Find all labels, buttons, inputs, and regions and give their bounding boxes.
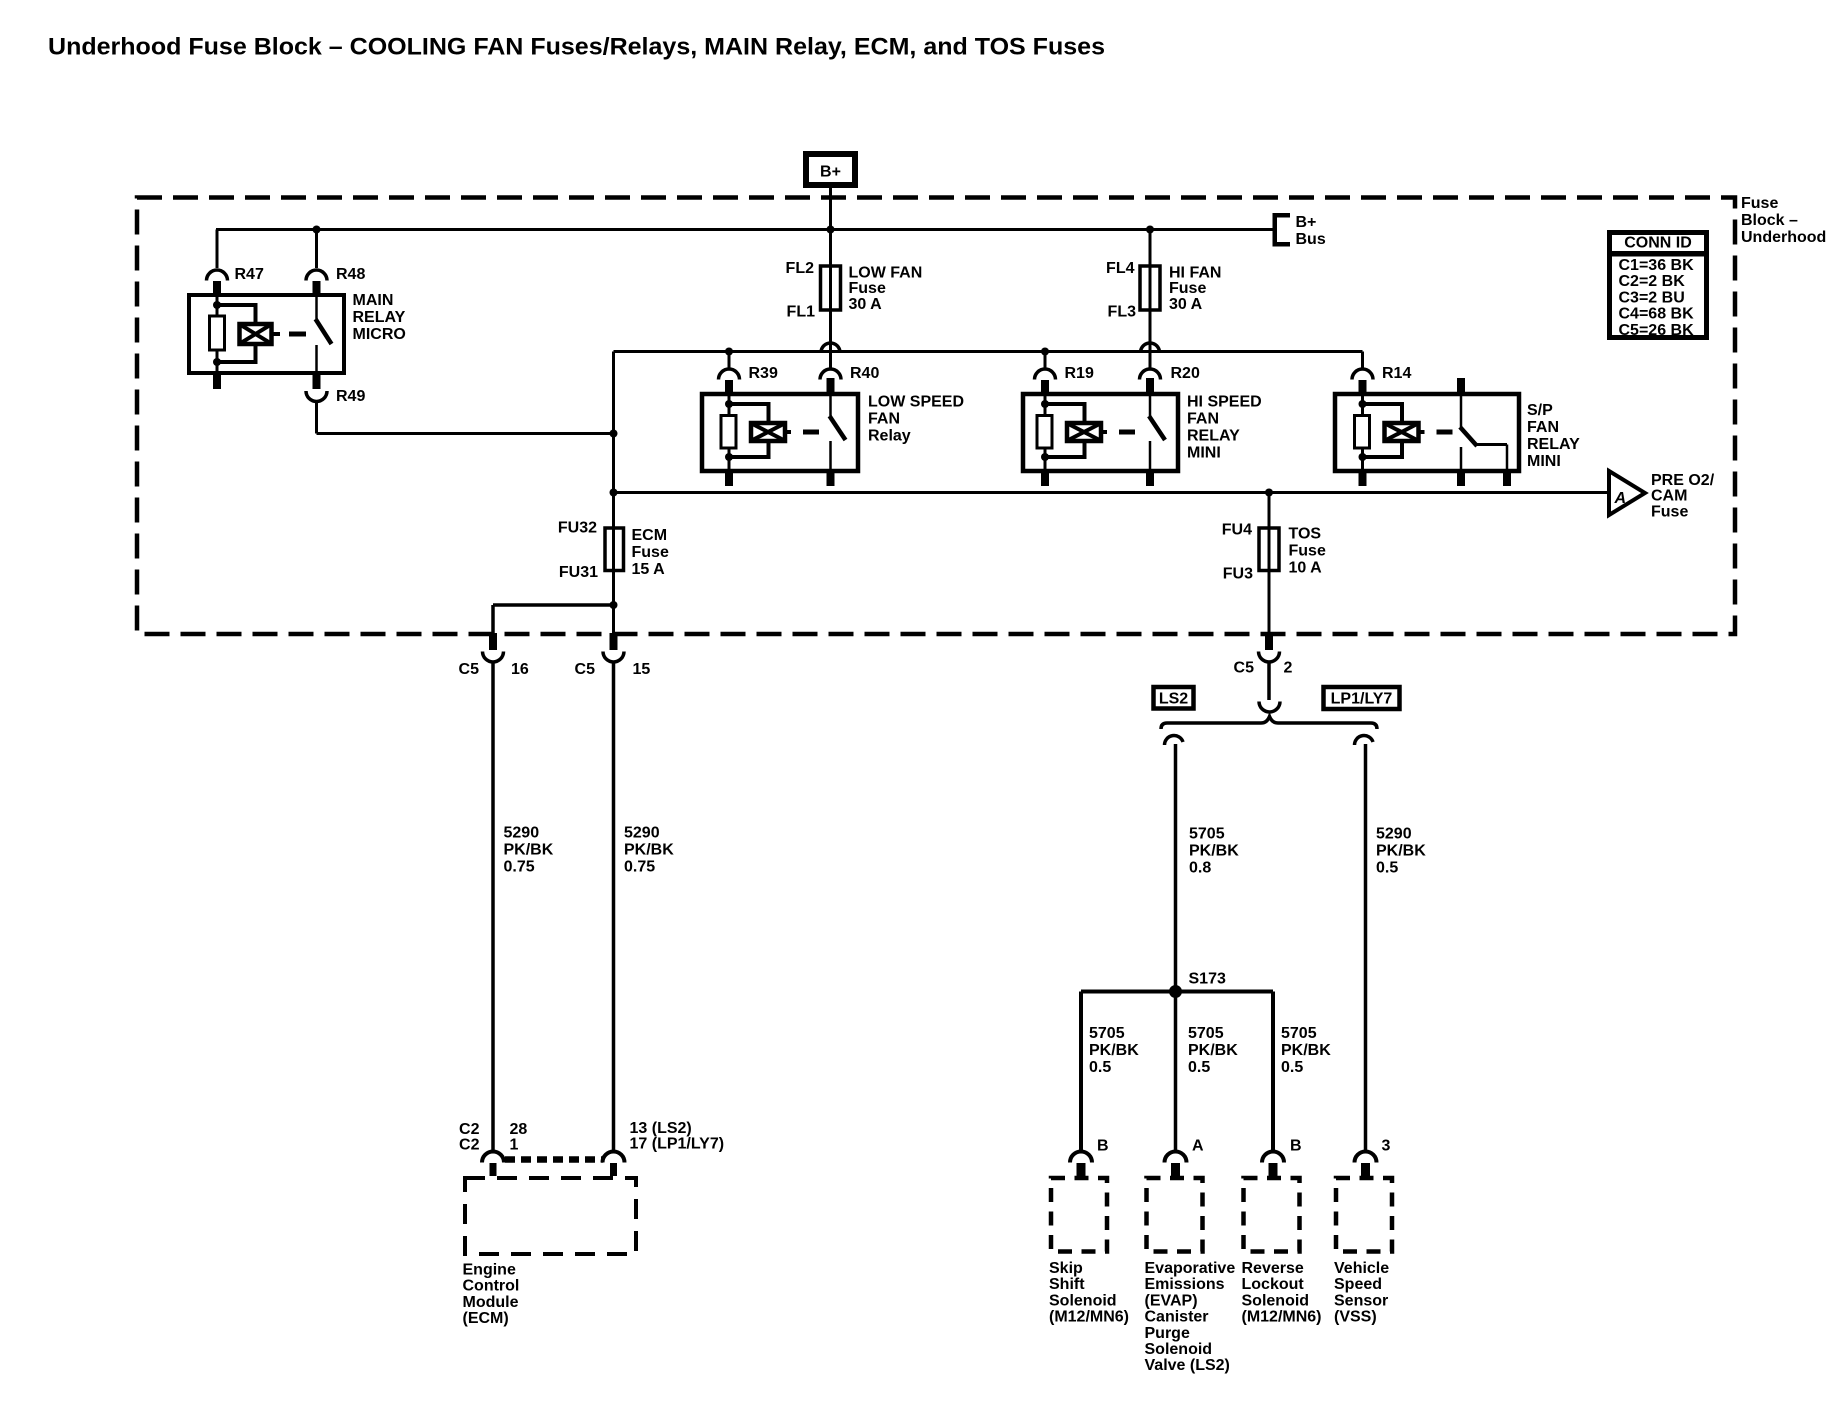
LOW SPEED FAN bottom coil pin — [725, 448, 733, 486]
label box LP1/LY7 — [1324, 687, 1400, 709]
wire output to TOS fuse — [1268, 493, 1271, 634]
connector R47 — [207, 270, 228, 295]
svg-text:MICRO: MICRO — [353, 326, 406, 343]
svg-text:15: 15 — [633, 661, 651, 678]
S/P FAN coil symbol — [1385, 423, 1425, 441]
svg-text:HI FAN: HI FAN — [1169, 265, 1221, 282]
svg-text:MINI: MINI — [1527, 453, 1561, 470]
label wire 5290 left — [504, 825, 554, 876]
S/P FAN bottom right pin — [1503, 473, 1511, 486]
svg-text:(VSS): (VSS) — [1334, 1309, 1377, 1326]
main relay switch — [316, 295, 332, 373]
wire feed to R14 — [1361, 352, 1364, 369]
HI SPEED FAN top switch pin — [1146, 378, 1154, 394]
svg-text:CAM: CAM — [1651, 488, 1687, 505]
connector C5 pin 15 — [603, 633, 624, 662]
connector EVAP solenoid pin A — [1165, 1152, 1187, 1177]
label R20 — [1171, 365, 1200, 382]
svg-text:PK/BK: PK/BK — [504, 842, 554, 859]
label ECM Fuse 15A — [632, 527, 669, 578]
svg-text:FU32: FU32 — [558, 520, 597, 537]
label R19 — [1065, 365, 1094, 382]
connector skip shift solenoid pin B — [1070, 1152, 1092, 1177]
node junction R48 drop — [313, 226, 321, 234]
S/P FAN coil-switch dash — [1437, 430, 1453, 435]
LOW SPEED FAN coil-switch dash — [803, 430, 819, 435]
label Reverse Lockout Solenoid — [1242, 1260, 1322, 1326]
svg-text:Fuse: Fuse — [1169, 280, 1206, 297]
svg-text:PK/BK: PK/BK — [1376, 843, 1426, 860]
svg-text:Module: Module — [463, 1294, 519, 1311]
svg-text:C4=68 BK: C4=68 BK — [1619, 306, 1695, 323]
ECM connector dotted line — [505, 1156, 603, 1163]
svg-text:FU31: FU31 — [559, 564, 598, 581]
relay HI SPEED FAN box — [1023, 394, 1178, 471]
svg-text:PK/BK: PK/BK — [1188, 1042, 1238, 1059]
B+ Bus terminal bracket — [1273, 213, 1291, 247]
svg-text:Reverse: Reverse — [1242, 1260, 1304, 1277]
wire 5705 PK/BK 0.8 — [1174, 744, 1178, 1151]
HI SPEED FAN bottom switch pin — [1146, 473, 1154, 486]
label R49 — [336, 388, 365, 405]
svg-text:B+: B+ — [1296, 214, 1317, 231]
node junction branch C5 — [610, 601, 618, 609]
node junction B+ bus — [827, 226, 835, 234]
component box skip shift solenoid — [1051, 1178, 1107, 1252]
svg-text:17 (LP1/LY7): 17 (LP1/LY7) — [630, 1135, 725, 1152]
svg-text:3: 3 — [1382, 1138, 1391, 1155]
svg-text:FU3: FU3 — [1223, 566, 1253, 583]
node junction TOS fuse — [1265, 489, 1273, 497]
label FL2 — [786, 260, 815, 277]
svg-text:B: B — [1290, 1138, 1302, 1155]
LOW SPEED FAN coil bracket — [729, 402, 769, 459]
component box EVAP canister purge solenoid valve — [1147, 1178, 1203, 1252]
svg-text:PK/BK: PK/BK — [1281, 1042, 1331, 1059]
label B+ Bus — [1296, 214, 1326, 248]
svg-text:R40: R40 — [850, 365, 879, 382]
connector R14 — [1352, 369, 1373, 394]
splice S173 — [1169, 985, 1182, 998]
svg-text:16: 16 — [511, 661, 529, 678]
connector R20 — [1140, 369, 1161, 394]
svg-text:PK/BK: PK/BK — [1089, 1042, 1139, 1059]
svg-text:Canister: Canister — [1145, 1309, 1209, 1326]
title — [48, 33, 1105, 60]
svg-text:C5: C5 — [1234, 660, 1255, 677]
fuse FL4/FL3 HI FAN 30A — [1140, 266, 1160, 310]
S/P FAN bottom switch pin — [1457, 473, 1465, 486]
inline connector cup — [1259, 702, 1280, 713]
wire 5290 PK/BK 0.75 left — [491, 662, 495, 1152]
svg-text:5705: 5705 — [1189, 826, 1225, 843]
label pin 28 1 — [510, 1121, 528, 1153]
S/P FAN coil feed wire — [1359, 392, 1367, 415]
label wire 5705 0.5 left — [1089, 1025, 1139, 1076]
svg-text:Evaporative: Evaporative — [1145, 1260, 1236, 1277]
wire S173 right drop — [1271, 992, 1275, 1152]
svg-text:Shift: Shift — [1049, 1276, 1085, 1293]
label HI FAN fuse — [1169, 265, 1221, 313]
label C5 (16) — [459, 661, 480, 678]
CONN ID table — [1610, 233, 1707, 339]
HI SPEED FAN coil-switch dash — [1119, 430, 1135, 435]
svg-text:Underhood: Underhood — [1741, 229, 1826, 246]
svg-text:R14: R14 — [1382, 365, 1411, 382]
label S/P FAN RELAY MINI — [1527, 402, 1580, 470]
off-page arrow A PRE O2/CAM — [1609, 471, 1645, 515]
LOW SPEED FAN top switch pin — [827, 378, 835, 394]
svg-text:(ECM): (ECM) — [463, 1310, 509, 1327]
LOW SPEED FAN bottom switch pin — [827, 473, 835, 486]
svg-text:B+: B+ — [820, 164, 841, 181]
svg-text:C5: C5 — [575, 661, 596, 678]
wire S173 left drop — [1079, 992, 1083, 1152]
wire bus to R48 — [315, 230, 318, 269]
svg-text:Fuse: Fuse — [1741, 195, 1778, 212]
LOW SPEED FAN coil resistor — [721, 416, 736, 449]
label S173 — [1189, 971, 1226, 988]
connector R48 — [306, 270, 327, 295]
svg-text:CONN ID: CONN ID — [1624, 235, 1692, 252]
wire 5290 PK/BK 0.5 — [1364, 744, 1368, 1151]
svg-text:10 A: 10 A — [1289, 559, 1323, 576]
svg-text:Vehicle: Vehicle — [1334, 1260, 1389, 1277]
svg-text:Purge: Purge — [1145, 1325, 1190, 1342]
svg-text:LP1/LY7: LP1/LY7 — [1331, 691, 1393, 708]
svg-text:Block –: Block – — [1741, 212, 1798, 229]
wire riser — [612, 352, 615, 529]
label pin B — [1097, 1138, 1109, 1155]
label R40 — [850, 365, 879, 382]
B+ power symbol — [806, 154, 855, 185]
label FU4 — [1222, 522, 1252, 539]
main relay coil resistor — [210, 316, 225, 350]
label wire 5705 0.8 — [1189, 826, 1239, 877]
svg-text:Fuse: Fuse — [849, 280, 886, 297]
svg-text:(M12/MN6): (M12/MN6) — [1049, 1309, 1129, 1326]
label fuse block underhood — [1741, 195, 1826, 246]
svg-text:LOW SPEED: LOW SPEED — [868, 394, 964, 411]
svg-text:0.5: 0.5 — [1089, 1059, 1111, 1076]
svg-text:5290: 5290 — [1376, 826, 1412, 843]
node junction HI fuse drop — [1146, 226, 1154, 234]
ECM dashed box — [465, 1178, 636, 1254]
svg-text:R47: R47 — [235, 266, 264, 283]
label FL3 — [1108, 304, 1137, 321]
label pin 16 — [511, 661, 529, 678]
main relay bottom coil pin — [213, 350, 221, 389]
svg-text:C2: C2 — [459, 1136, 480, 1153]
main relay coil bracket — [217, 303, 256, 364]
node junction ECM fuse — [610, 489, 618, 497]
connector ECM pin 13/17 — [603, 1152, 625, 1177]
label pin 3 — [1382, 1138, 1391, 1155]
svg-text:C3=2 BU: C3=2 BU — [1619, 289, 1685, 306]
label R14 — [1382, 365, 1411, 382]
HI SPEED FAN coil bracket — [1045, 402, 1085, 459]
svg-text:R20: R20 — [1171, 365, 1200, 382]
fuse block underhood dashed border — [137, 198, 1735, 635]
connector hook VSS branch — [1355, 736, 1374, 745]
svg-text:Solenoid: Solenoid — [1145, 1341, 1213, 1358]
main relay coil feed wire — [213, 295, 221, 316]
svg-text:R19: R19 — [1065, 365, 1094, 382]
main relay switch output pin — [313, 373, 321, 389]
svg-text:1: 1 — [510, 1136, 519, 1153]
HI SPEED FAN bottom coil pin — [1041, 448, 1049, 486]
svg-text:30 A: 30 A — [849, 296, 883, 313]
svg-text:HI SPEED: HI SPEED — [1187, 394, 1262, 411]
connector hook LS2 branch — [1165, 736, 1184, 745]
svg-text:Relay: Relay — [868, 428, 911, 445]
svg-text:C2=2 BK: C2=2 BK — [1619, 273, 1686, 290]
wire bus line — [216, 228, 1274, 231]
svg-text:Emissions: Emissions — [1145, 1276, 1225, 1293]
svg-text:0.5: 0.5 — [1376, 860, 1398, 877]
label R47 — [235, 266, 264, 283]
label pin 2 — [1284, 660, 1293, 677]
svg-text:PRE O2/: PRE O2/ — [1651, 472, 1715, 489]
main relay coil symbol — [240, 324, 281, 344]
svg-text:5705: 5705 — [1089, 1025, 1125, 1042]
connector FL1 on feed line — [821, 343, 840, 353]
label FU3 — [1223, 566, 1253, 583]
connector R19 — [1035, 369, 1056, 394]
wire bus to FL1 — [829, 230, 832, 370]
LOW SPEED FAN coil symbol — [751, 423, 791, 441]
svg-text:Skip: Skip — [1049, 1260, 1083, 1277]
S/P FAN top switch pin — [1457, 378, 1465, 394]
svg-text:5290: 5290 — [504, 825, 540, 842]
svg-text:C1=36 BK: C1=36 BK — [1619, 257, 1695, 274]
relay S/P FAN box — [1335, 394, 1519, 471]
component box vehicle speed sensor — [1336, 1178, 1392, 1252]
connector R39 — [719, 369, 740, 394]
svg-text:FAN: FAN — [1527, 419, 1559, 436]
svg-text:C5: C5 — [459, 661, 480, 678]
label Engine Control Module ECM — [463, 1262, 520, 1328]
relay MAIN RELAY MICRO box — [189, 295, 344, 373]
svg-text:B: B — [1097, 1138, 1109, 1155]
svg-text:5705: 5705 — [1281, 1025, 1317, 1042]
svg-text:2: 2 — [1284, 660, 1293, 677]
connector R40 — [820, 369, 841, 394]
svg-text:FU4: FU4 — [1222, 522, 1252, 539]
svg-text:Control: Control — [463, 1278, 520, 1295]
HI SPEED FAN coil symbol — [1067, 423, 1107, 441]
engine option brace — [1161, 717, 1377, 730]
label TOS Fuse 10A — [1289, 526, 1326, 577]
svg-text:LOW FAN: LOW FAN — [849, 265, 923, 282]
main relay coil-switch dash — [289, 332, 306, 337]
svg-text:(EVAP): (EVAP) — [1145, 1292, 1198, 1309]
label R39 — [749, 365, 778, 382]
svg-text:(M12/MN6): (M12/MN6) — [1242, 1309, 1322, 1326]
HI SPEED FAN coil resistor — [1037, 416, 1052, 449]
wire feed to R19 — [1044, 352, 1047, 370]
connector R49 — [306, 391, 327, 402]
label LOW SPEED FAN Relay — [868, 394, 964, 445]
wire riser lower — [612, 434, 615, 634]
wire 5290 PK/BK 0.75 right — [612, 662, 616, 1152]
svg-text:TOS: TOS — [1289, 526, 1322, 543]
svg-text:FL4: FL4 — [1106, 260, 1135, 277]
label EVAP Canister Purge Solenoid Valve — [1145, 1260, 1236, 1374]
label pin 15 — [633, 661, 651, 678]
wire R49 to riser — [317, 402, 614, 434]
S/P FAN coil resistor — [1355, 416, 1370, 449]
svg-text:Sensor: Sensor — [1334, 1292, 1388, 1309]
svg-text:MINI: MINI — [1187, 445, 1221, 462]
label wire 5290 0.5 — [1376, 826, 1426, 877]
node junction R19 — [1041, 348, 1049, 356]
connector FL3 on feed line — [1141, 343, 1160, 353]
label PRE O2/CAM Fuse — [1651, 472, 1715, 520]
svg-text:FL3: FL3 — [1108, 304, 1137, 321]
svg-text:0.75: 0.75 — [504, 859, 535, 876]
fuse FU4/FU3 TOS 10A — [1259, 528, 1279, 571]
svg-text:LS2: LS2 — [1159, 691, 1188, 708]
S/P FAN switch — [1460, 392, 1477, 473]
svg-text:0.5: 0.5 — [1281, 1059, 1303, 1076]
svg-text:Valve (LS2): Valve (LS2) — [1145, 1357, 1230, 1374]
svg-text:30 A: 30 A — [1169, 296, 1203, 313]
svg-text:FL2: FL2 — [786, 260, 815, 277]
label box LS2 — [1154, 687, 1194, 709]
connector VSS pin 3 — [1355, 1152, 1377, 1177]
svg-text:Underhood Fuse Block – COOLING: Underhood Fuse Block – COOLING FAN Fuses… — [48, 33, 1105, 60]
connector C5 pin 2 — [1259, 633, 1280, 662]
label pin 17 LP1/LY7 — [630, 1135, 725, 1152]
svg-text:Solenoid: Solenoid — [1242, 1292, 1310, 1309]
S/P FAN bottom coil pin — [1359, 448, 1367, 486]
label Vehicle Speed Sensor — [1334, 1260, 1389, 1326]
S/P FAN coil bracket — [1363, 402, 1403, 459]
svg-text:RELAY: RELAY — [353, 309, 406, 326]
HI SPEED FAN coil feed wire — [1041, 392, 1049, 415]
label C5 (2) — [1234, 660, 1255, 677]
svg-text:A: A — [1614, 490, 1627, 507]
label FL4 — [1106, 260, 1135, 277]
component box reverse lockout solenoid — [1244, 1178, 1300, 1252]
svg-text:0.8: 0.8 — [1189, 860, 1211, 877]
svg-text:S/P: S/P — [1527, 402, 1553, 419]
svg-text:RELAY: RELAY — [1187, 428, 1240, 445]
label pin B — [1290, 1138, 1302, 1155]
svg-text:5290: 5290 — [624, 825, 660, 842]
svg-text:S173: S173 — [1189, 971, 1226, 988]
wire B+ to bus — [829, 188, 832, 230]
label C2 C2 — [459, 1121, 480, 1153]
S/P FAN switch contact to right pin — [1476, 445, 1507, 474]
label C5 (15) — [575, 661, 596, 678]
wire C5 2 to splice brace — [1267, 662, 1271, 701]
label wire 5705 0.5 right — [1281, 1025, 1331, 1076]
label Skip Shift Solenoid — [1049, 1260, 1129, 1326]
svg-text:FL1: FL1 — [787, 304, 816, 321]
wire branch to C5 16 — [493, 605, 614, 633]
node junction R49 riser — [610, 430, 618, 438]
label R48 — [336, 266, 365, 283]
svg-text:RELAY: RELAY — [1527, 436, 1580, 453]
svg-text:Bus: Bus — [1296, 231, 1326, 248]
svg-text:Solenoid: Solenoid — [1049, 1292, 1117, 1309]
svg-text:5705: 5705 — [1188, 1025, 1224, 1042]
label pin 13 LS2 — [630, 1120, 692, 1137]
connector ECM pin 28/1 — [482, 1152, 504, 1177]
LOW SPEED FAN switch — [830, 392, 846, 473]
wire bus to FL3 — [1149, 230, 1152, 370]
svg-text:Engine: Engine — [463, 1262, 516, 1279]
fuse FL2/FL1 LOW FAN 30A — [821, 266, 841, 310]
svg-text:PK/BK: PK/BK — [1189, 843, 1239, 860]
node junction R39 — [725, 348, 733, 356]
connector C5 pin 16 — [483, 633, 504, 662]
wire output line — [614, 491, 1610, 494]
svg-text:PK/BK: PK/BK — [624, 842, 674, 859]
svg-text:C5=26 BK: C5=26 BK — [1619, 322, 1695, 339]
label LOW FAN fuse — [849, 265, 923, 313]
label wire 5290 right — [624, 825, 674, 876]
svg-text:15 A: 15 A — [632, 561, 666, 578]
label MAIN RELAY MICRO — [353, 292, 406, 343]
label pin A — [1192, 1138, 1204, 1155]
svg-text:Speed: Speed — [1334, 1276, 1382, 1293]
relay LOW SPEED FAN box — [702, 394, 858, 471]
wire feed to R39 — [728, 352, 731, 370]
fuse FU32/FU31 ECM 15A — [605, 528, 624, 571]
label wire 5705 0.5 mid — [1188, 1025, 1238, 1076]
svg-text:MAIN: MAIN — [353, 292, 394, 309]
label FU32 — [558, 520, 597, 537]
svg-text:0.5: 0.5 — [1188, 1059, 1210, 1076]
svg-text:Fuse: Fuse — [1651, 503, 1688, 520]
wire relay feed line — [614, 350, 1363, 353]
HI SPEED FAN switch — [1149, 392, 1165, 473]
label HI SPEED FAN RELAY MINI — [1187, 394, 1262, 462]
svg-text:Fuse: Fuse — [1289, 542, 1326, 559]
svg-text:Fuse: Fuse — [632, 544, 669, 561]
svg-text:R39: R39 — [749, 365, 778, 382]
label FL1 — [787, 304, 816, 321]
svg-text:R48: R48 — [336, 266, 365, 283]
LOW SPEED FAN coil feed wire — [725, 392, 733, 415]
svg-text:ECM: ECM — [632, 527, 668, 544]
label FU31 — [559, 564, 598, 581]
wire S173 crossbar — [1081, 990, 1273, 994]
svg-text:FAN: FAN — [1187, 411, 1219, 428]
svg-text:A: A — [1192, 1138, 1204, 1155]
connector reverse lockout pin B — [1262, 1152, 1284, 1177]
svg-text:R49: R49 — [336, 388, 365, 405]
wire bus to R47 — [216, 230, 219, 269]
svg-text:0.75: 0.75 — [624, 859, 655, 876]
svg-text:FAN: FAN — [868, 411, 900, 428]
svg-text:Lockout: Lockout — [1242, 1276, 1305, 1293]
